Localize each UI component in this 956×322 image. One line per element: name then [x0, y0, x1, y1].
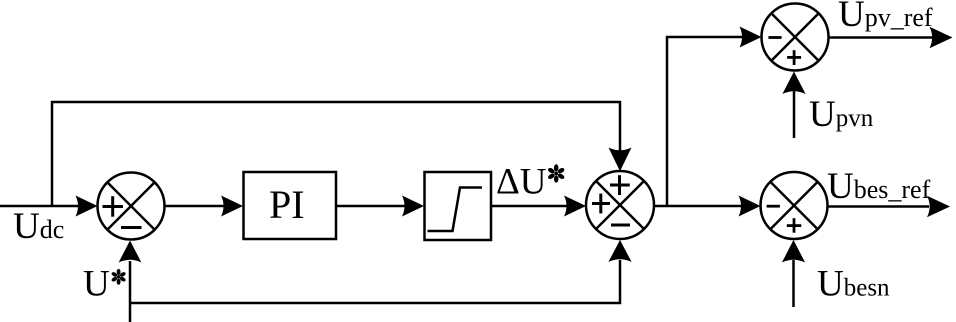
- svg-text:Upv_ref: Upv_ref: [838, 0, 933, 35]
- svg-text:Upvn: Upvn: [809, 94, 874, 135]
- svg-text:Ubesn: Ubesn: [817, 264, 890, 305]
- wire Udc input: [0, 196, 98, 217]
- svg-text:U: U: [83, 264, 110, 305]
- wire Ubesn input: [782, 240, 805, 307]
- svg-text:Udc: Udc: [13, 206, 64, 247]
- wire S3 output Upv_ref: [829, 27, 953, 48]
- block PI: [244, 172, 337, 239]
- summing junction S2: [586, 171, 654, 239]
- wire S1 to PI: [165, 196, 244, 217]
- summing junction S1: [98, 173, 165, 240]
- wire limiter to S2: [491, 196, 586, 217]
- svg-text:PI: PI: [269, 182, 305, 227]
- summing junction S3: [762, 4, 829, 71]
- wire PI to limiter: [336, 196, 424, 217]
- wire S4 output Ubes_ref: [828, 196, 951, 217]
- svg-text:Ubes_ref: Ubes_ref: [827, 166, 931, 207]
- wire Upvn input: [782, 72, 805, 139]
- block limiter: [425, 172, 492, 240]
- node branch Udc feedforward: [52, 102, 632, 206]
- node branch to S3: [667, 27, 762, 207]
- wire S2 output to S4: [654, 196, 761, 217]
- summing junction S4: [761, 172, 828, 239]
- svg-text:ΔU: ΔU: [496, 162, 547, 203]
- wire Ustar feedback: [119, 240, 632, 322]
